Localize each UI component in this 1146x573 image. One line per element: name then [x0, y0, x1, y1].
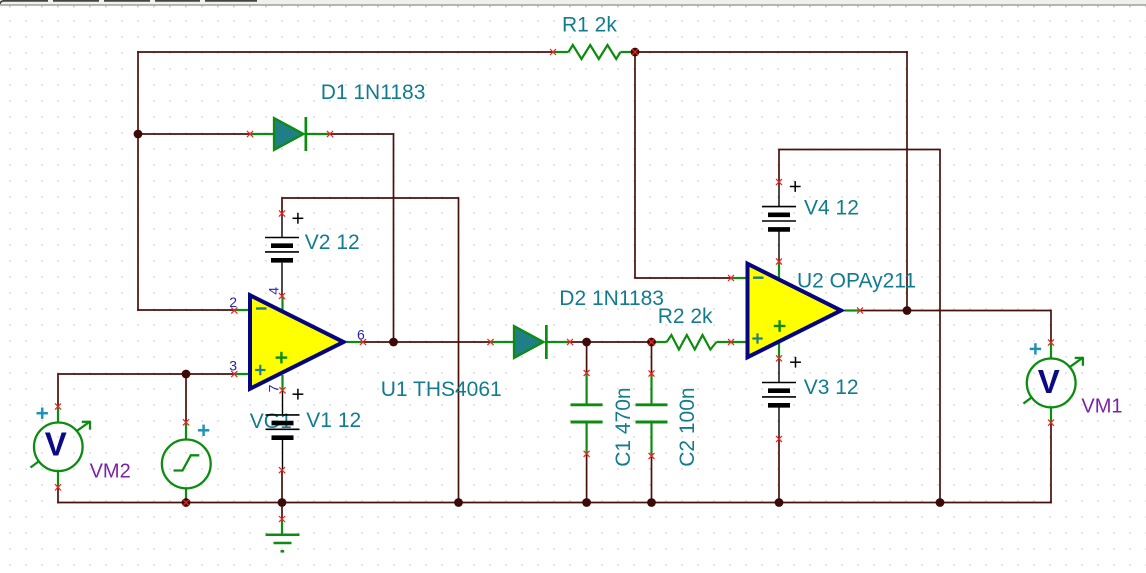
svg-text:R1 2k: R1 2k [562, 14, 617, 37]
wire R2 left lead [652, 341, 667, 343]
wire bottom ground rail [58, 502, 1051, 504]
wire C2 bottom lead [650, 423, 652, 456]
node rail V4 junction [936, 498, 945, 507]
wire VM2 top lead [57, 407, 59, 424]
wire V1 bottom to rail [281, 470, 283, 502]
wire top rail left segment node R1-left [138, 51, 553, 53]
resistor R1 [569, 45, 621, 59]
node rail V2 junction [454, 498, 463, 507]
voltmeter VM1 [1023, 357, 1083, 407]
wire V1 battery top lead from U1 pin 7 [282, 391, 284, 415]
wire V3 battery bottom lead [778, 406, 780, 439]
op-amp U2 non-inverting mark [752, 333, 762, 343]
wire VM2 top up and over to U1 pin 3 [58, 374, 234, 407]
wire V4 battery top lead [778, 182, 780, 206]
wire V2 battery bottom lead to U1 pin 4 [281, 263, 283, 296]
wire V1 battery bottom lead [282, 438, 284, 470]
op-amp U2 inverting mark [753, 277, 764, 279]
wire VM2 bottom lead [57, 471, 59, 488]
svg-text:V: V [1038, 363, 1060, 400]
wire D2 cathode to C1 node to C2 node [570, 341, 652, 343]
wire U2 output to VM1 top [860, 311, 1051, 343]
toolbar strip top [0, 0, 1146, 5]
wire node A to D1 anode [138, 133, 250, 135]
wire C1 bottom lead [585, 423, 587, 454]
battery V1 plus mark [293, 389, 304, 400]
diode D1 [274, 117, 307, 151]
wire R1 junction down and into U2 inverting input [635, 52, 731, 278]
ground [266, 535, 300, 552]
op-amp U2 power plus mark [774, 320, 786, 332]
node U1 output junction [389, 338, 398, 347]
svg-text:C2 100n: C2 100n [676, 387, 699, 466]
svg-text:VM1: VM1 [1081, 396, 1122, 418]
ruler ticks [10, 5, 1146, 7]
wire C2 bottom to rail [651, 456, 653, 503]
svg-text:V1 12: V1 12 [306, 409, 361, 432]
wire U1 pin4 stub [281, 296, 283, 311]
node C1 top junction [582, 338, 591, 347]
wire V4 positive terminal over to ground rail [779, 150, 940, 503]
capacitor C2 [636, 405, 668, 422]
wire R1 right lead [621, 51, 636, 53]
diode D2 [514, 325, 548, 359]
svg-text:D1 1N1183: D1 1N1183 [321, 81, 426, 104]
wire U1 pin6 output stub [347, 341, 363, 343]
svg-text:R2 2k: R2 2k [658, 305, 713, 328]
wire D2 cathode lead [547, 341, 571, 343]
svg-text:C1 470n: C1 470n [612, 387, 635, 466]
op-amp U2 [746, 261, 846, 361]
capacitor C1 [571, 405, 603, 422]
wire V3 battery top lead from U2 bottom pin [778, 358, 780, 382]
wire U2 output stub [845, 309, 861, 311]
wire V2 battery top lead [281, 214, 283, 238]
wire VM1 bottom lead [1050, 407, 1052, 423]
wire U1 pin3 stub [234, 373, 249, 375]
wire rail to ground symbol [281, 503, 283, 520]
wire U2 inverting stub [731, 277, 747, 279]
wire feed to U1 pin 2 [138, 309, 234, 311]
battery V2 plus mark [293, 213, 304, 224]
svg-text:7: 7 [265, 384, 281, 392]
wire D2 anode lead [491, 341, 515, 343]
wire ground stub [281, 519, 283, 534]
battery V2 [265, 238, 299, 261]
node rail C1 junction [582, 498, 591, 507]
node rail ground junction [278, 498, 287, 507]
wire V2 positive terminal over to ground rail [282, 198, 459, 503]
wire R1 left lead [553, 51, 569, 53]
resistor R2 [667, 335, 717, 350]
wire D1 cathode down to U1 output node [330, 134, 394, 342]
battery V3 [762, 383, 796, 406]
wire top rail right segment R1 to right corner [635, 51, 907, 53]
wire VM2 bottom to ground rail [57, 487, 59, 502]
node U2 output junction [903, 306, 912, 315]
battery V4 [762, 207, 796, 230]
wire C2 top lead [650, 374, 652, 405]
voltmeter VM2 plus mark [37, 408, 48, 419]
op-amp U1 non-inverting mark [255, 365, 265, 375]
node rail V3 junction [775, 498, 784, 507]
wire C2 top connection [651, 342, 653, 374]
wire left vertical from top rail to U1 inverting input row [137, 52, 139, 310]
svg-text:U1 THS4061: U1 THS4061 [381, 378, 502, 401]
wire V4 battery bottom lead to U2 top pin [778, 230, 780, 262]
wire VG1 bottom lead [185, 488, 187, 503]
generator VG1 plus mark [198, 425, 209, 436]
wire C1 top lead [585, 373, 587, 404]
wire junction down to VG1 top [185, 374, 187, 422]
svg-text:V2 12: V2 12 [305, 231, 360, 254]
wire D1 cathode lead [306, 133, 330, 135]
generator VG1 [162, 440, 211, 489]
wire U2 non-inverting stub from R2 [716, 341, 746, 343]
op-amp U1 [248, 292, 348, 392]
node rail VG1 junction [182, 498, 191, 507]
svg-text:D2 1N1183: D2 1N1183 [559, 287, 664, 310]
svg-text:V: V [45, 425, 67, 462]
wire C1 bottom to rail [586, 454, 588, 503]
node R1 output junction [631, 48, 640, 57]
wire VM1 bottom to ground rail [1050, 423, 1052, 503]
op-amp U1 inverting mark [256, 307, 267, 309]
voltmeter VM1 plus mark [1030, 343, 1041, 354]
svg-text:V4 12: V4 12 [804, 197, 859, 220]
svg-text:U2 OPAy211: U2 OPAy211 [797, 270, 916, 293]
battery V3 plus mark [790, 357, 801, 368]
voltmeter VM2 [31, 421, 91, 471]
wire U2 top power stub [778, 262, 780, 280]
node C2 top junction [647, 338, 656, 347]
node pin3 feed junction [182, 370, 191, 379]
wire VM1 top lead [1050, 343, 1052, 360]
svg-text:V3 12: V3 12 [804, 376, 859, 399]
wire U1 pin2 stub [234, 309, 249, 311]
svg-text:3: 3 [229, 358, 237, 374]
node rail C2 junction [647, 498, 656, 507]
wire U2 bottom power stub [778, 343, 780, 358]
wire U1 output to D2 anode [363, 341, 491, 343]
wire top rail down to U2 output junction [906, 52, 908, 311]
pin x marks [55, 49, 1054, 522]
op-amp U1 power plus mark [276, 352, 288, 364]
wire D1 anode lead [250, 133, 274, 135]
svg-text:VM2: VM2 [90, 461, 131, 483]
node A junction top-left [134, 130, 143, 139]
battery V4 plus mark [790, 181, 801, 192]
wire VG1 top lead [185, 422, 187, 440]
svg-text:2: 2 [229, 294, 237, 310]
wire V3 bottom to rail [778, 439, 780, 503]
battery V1 [266, 415, 300, 438]
wire C1 top connection [586, 342, 588, 373]
wire U1 pin7 stub [281, 375, 283, 390]
